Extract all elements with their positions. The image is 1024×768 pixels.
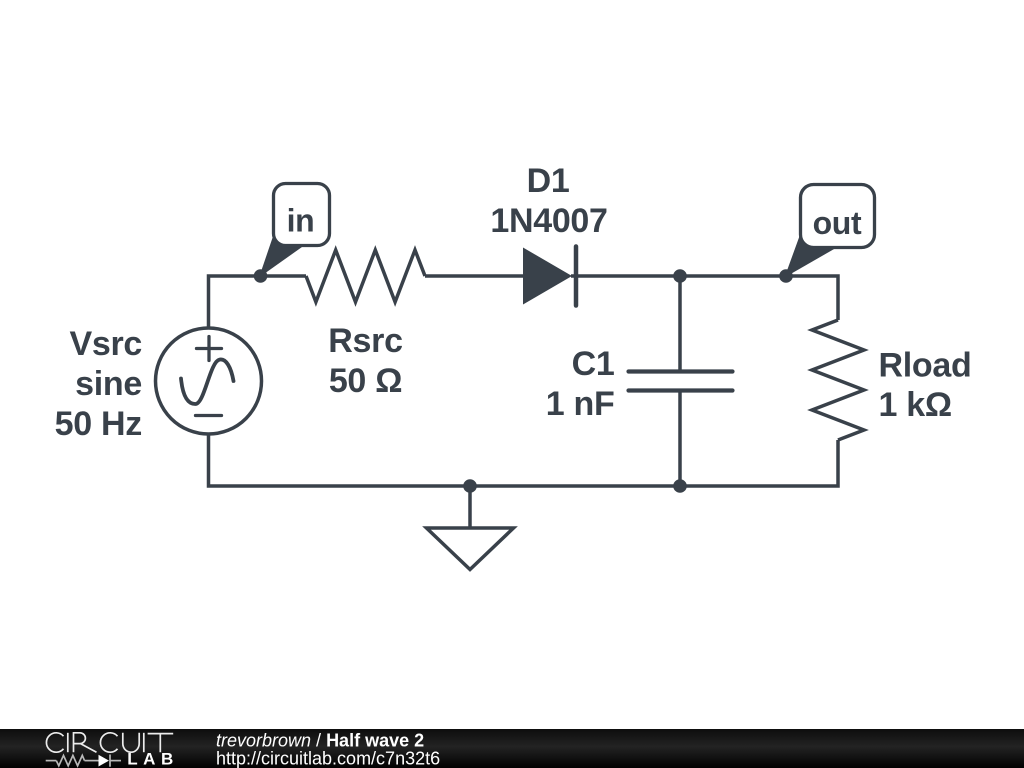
svg-text:trevorbrown / Half wave 2: trevorbrown / Half wave 2: [216, 731, 424, 751]
svg-text:C1: C1: [572, 345, 615, 383]
svg-text:50 Hz: 50 Hz: [55, 405, 142, 443]
svg-text:http://circuitlab.com/c7n32t6: http://circuitlab.com/c7n32t6: [216, 749, 440, 768]
svg-text:50 Ω: 50 Ω: [329, 362, 402, 400]
svg-text:1N4007: 1N4007: [490, 202, 607, 240]
svg-text:1 kΩ: 1 kΩ: [879, 386, 952, 424]
svg-text:out: out: [813, 205, 862, 241]
svg-text:Rload: Rload: [879, 347, 972, 385]
svg-text:in: in: [287, 203, 315, 239]
svg-text:1 nF: 1 nF: [546, 385, 615, 423]
svg-text:sine: sine: [75, 365, 142, 403]
svg-text:Vsrc: Vsrc: [69, 325, 142, 363]
svg-text:Rsrc: Rsrc: [328, 322, 402, 360]
svg-text:D1: D1: [527, 162, 570, 200]
svg-text:LAB: LAB: [127, 749, 179, 768]
